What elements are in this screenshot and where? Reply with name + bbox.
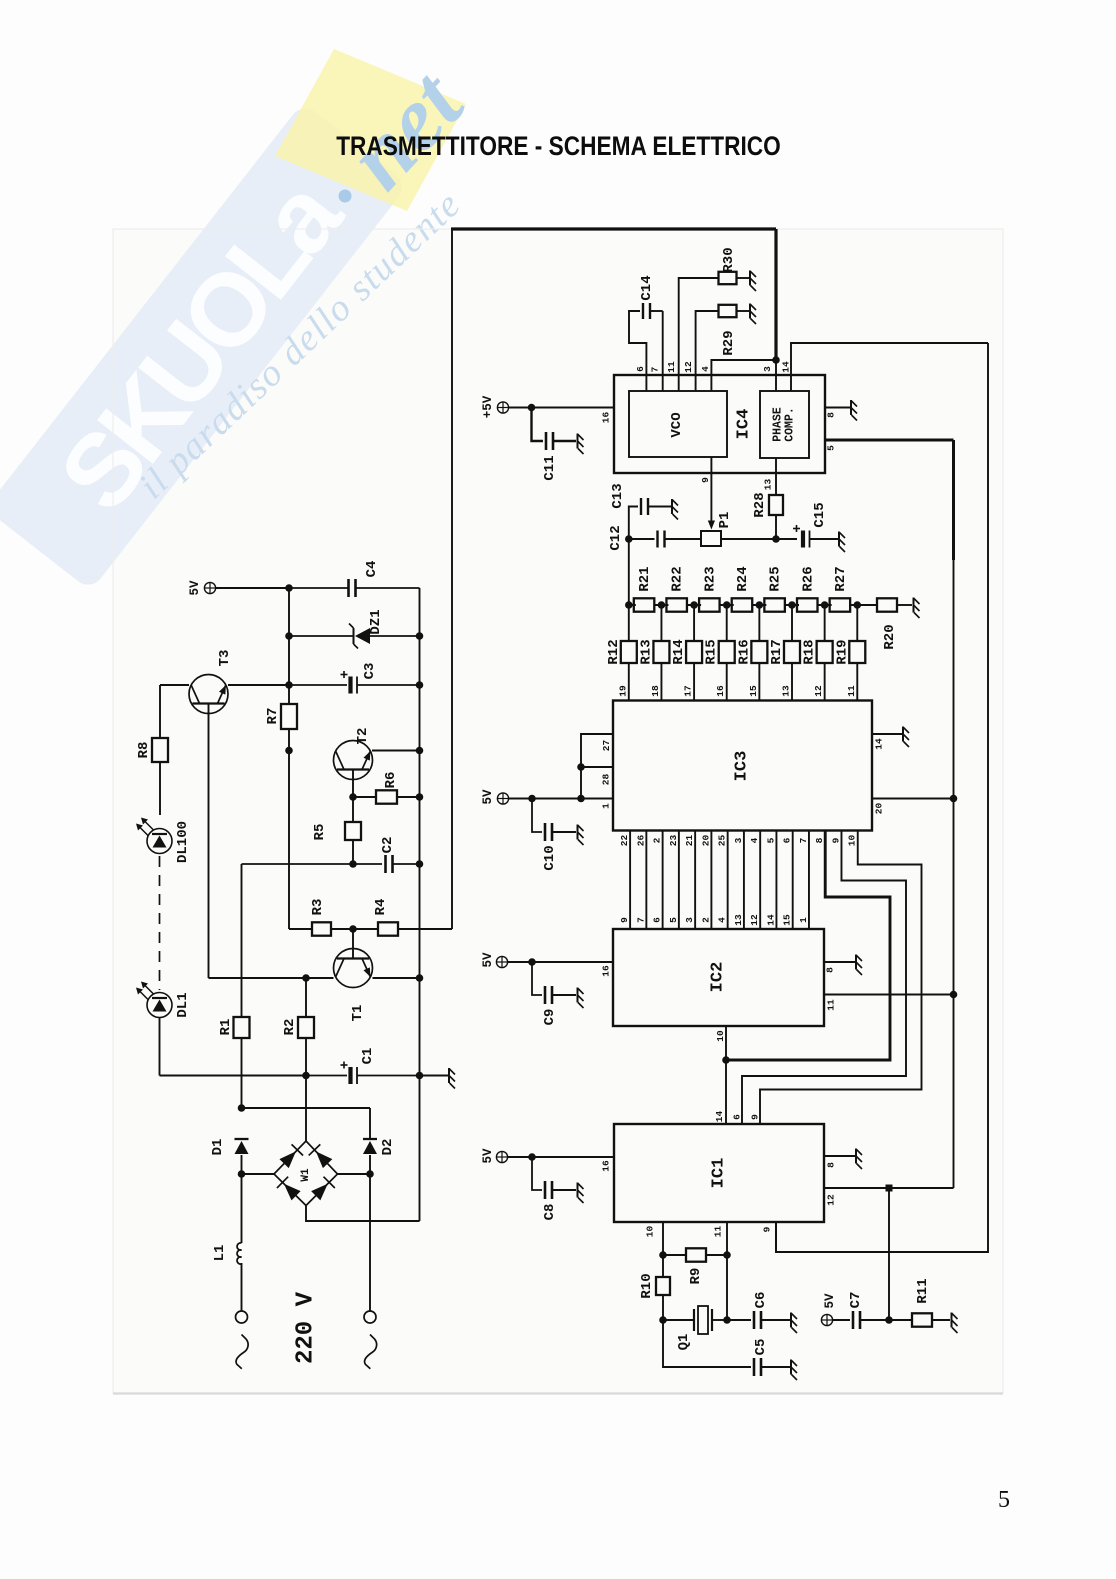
capacitor C3 electrolytic: [289, 684, 347, 686]
wire VCO pin 4 to phase comp pin 3: [711, 360, 776, 391]
svg-text:R6: R6: [383, 772, 399, 789]
svg-text:11: 11: [713, 1226, 724, 1238]
junction dot pin20 bus: [950, 795, 958, 803]
svg-text:R17: R17: [769, 639, 785, 664]
svg-text:15: 15: [782, 914, 793, 926]
junction dot ladder node 4: [723, 601, 731, 609]
junction dot T1 base node: [349, 925, 357, 933]
wire IC3 pin 21 to IC2: [694, 831, 696, 930]
junction dot R2-C1 node: [302, 1072, 310, 1080]
svg-text:R4: R4: [373, 899, 389, 916]
IC3 box: [613, 701, 872, 831]
svg-text:3: 3: [733, 837, 744, 843]
svg-text:6: 6: [635, 366, 646, 372]
wire IC2 pin 8 to ground: [824, 961, 855, 963]
svg-text:10: 10: [715, 1030, 726, 1042]
svg-text:Q1: Q1: [676, 1334, 692, 1351]
capacitor C1 electrolytic: [306, 1075, 347, 1077]
svg-text:T2: T2: [355, 728, 371, 745]
svg-text:12: 12: [826, 1194, 837, 1206]
svg-text:TRASMETTITORE - SCHEMA ELETTRI: TRASMETTITORE - SCHEMA ELETTRICO: [336, 131, 781, 161]
svg-text:1: 1: [798, 917, 809, 923]
junction dot T1-R2 node: [302, 974, 310, 982]
svg-text:18: 18: [650, 685, 661, 697]
svg-text:11: 11: [826, 999, 837, 1011]
power 5V terminal (T3 section): [204, 582, 215, 593]
junction dot C1 right node: [416, 1072, 424, 1080]
svg-text:5: 5: [998, 1487, 1010, 1513]
junction dot D2-W1: [366, 1170, 374, 1178]
svg-text:4: 4: [749, 837, 760, 843]
svg-text:4: 4: [717, 917, 728, 923]
svg-text:13: 13: [733, 914, 744, 926]
svg-text:9: 9: [750, 1114, 761, 1120]
capacitor C9: [532, 962, 542, 995]
svg-text:R27: R27: [833, 566, 849, 591]
svg-text:R3: R3: [310, 899, 326, 916]
wire thick top bus to IC4 pin 3: [451, 227, 776, 230]
svg-text:R16: R16: [736, 639, 752, 664]
dashed optical link DL100-DL1: [159, 856, 161, 990]
capacitor C6: [753, 1311, 756, 1329]
svg-text:R18: R18: [802, 639, 818, 664]
capacitor C7: [852, 1311, 855, 1329]
svg-text:21: 21: [684, 835, 695, 847]
wire IC2 pin 11 to x955 bus: [824, 994, 954, 996]
resistor R21: [634, 598, 655, 611]
ground IC2 pin 8: [856, 955, 862, 976]
watermark .net text: [339, 190, 352, 203]
wire W1 top corner to C1 row: [305, 1076, 307, 1142]
svg-text:8: 8: [814, 837, 825, 843]
wire 5V to IC1 pin 16: [508, 1156, 614, 1158]
wire VCO pin 7: [662, 311, 664, 391]
wire IC3 pin 25 to IC2: [727, 831, 729, 930]
svg-text:12: 12: [749, 914, 760, 926]
svg-text:6: 6: [732, 1114, 743, 1120]
capacitor C10: [532, 799, 542, 833]
svg-text:16: 16: [601, 1160, 612, 1172]
resistor R23: [699, 598, 720, 611]
watermark yellow parallelogram: [275, 49, 466, 211]
wire Q1 node to C6: [726, 1255, 728, 1320]
resistor R18: [824, 605, 826, 641]
junction dot Q1 left: [659, 1316, 667, 1324]
svg-text:11: 11: [846, 685, 857, 697]
junction dot 5V-C4 node: [285, 584, 293, 592]
inductor L1: [241, 1174, 243, 1243]
svg-text:2: 2: [700, 917, 711, 923]
IC1 box: [614, 1124, 824, 1222]
resistor R4: [353, 928, 378, 930]
svg-text:6: 6: [652, 917, 663, 923]
wire phase comp pin 14 to right bus: [791, 343, 988, 391]
wire IC3 pin 10 bus to IC1 pin 9: [760, 831, 922, 1125]
resistor R5: [352, 797, 354, 822]
wire IC1 pin 10 down: [662, 1222, 664, 1255]
svg-text:R29: R29: [721, 330, 737, 355]
resistor R12: [628, 605, 630, 641]
junction dot T1 right node: [416, 974, 424, 982]
resistor R7: [281, 704, 297, 729]
resistor R13: [660, 605, 662, 641]
wire 5V to IC3 pin 1: [509, 798, 613, 800]
junction dot ladder node 7: [821, 601, 829, 609]
svg-text:7: 7: [650, 366, 661, 372]
sine squiggle right terminal: [365, 1335, 377, 1369]
diode D2: [363, 1138, 377, 1140]
power +5V terminal IC4: [497, 402, 508, 413]
svg-text:7: 7: [635, 917, 646, 923]
svg-text:3: 3: [762, 366, 773, 372]
wire IC3 pin 8 thick bus to IC1 pin14 node: [726, 831, 890, 1061]
wire 5V to IC4 pin 16: [509, 407, 614, 409]
svg-text:R20: R20: [882, 624, 898, 649]
wire IC1 pin 12 right: [824, 1187, 954, 1189]
crystal Q1: [663, 1319, 694, 1321]
wire IC3 pin 23 to IC2: [678, 831, 680, 930]
svg-text:R11: R11: [915, 1278, 931, 1303]
zener diode DZ1: [289, 635, 353, 637]
svg-text:R14: R14: [671, 639, 687, 664]
svg-text:5: 5: [765, 837, 776, 843]
svg-text:9: 9: [700, 477, 711, 483]
junction dot ladder node 5: [756, 601, 764, 609]
resistor R10: [656, 1277, 670, 1295]
svg-text:8: 8: [826, 1162, 837, 1168]
svg-text:13: 13: [763, 479, 774, 491]
resistor R16: [758, 605, 760, 641]
svg-text:D2: D2: [380, 1139, 396, 1156]
wire C13 branch: [629, 507, 638, 540]
ground C9: [578, 988, 584, 1009]
svg-text:IC1: IC1: [710, 1158, 729, 1189]
svg-text:16: 16: [715, 685, 726, 697]
wire IC3 pin 27-28 link: [581, 734, 613, 799]
svg-text:+5V: +5V: [481, 395, 495, 418]
wire IC3 pin 5 to IC2: [775, 831, 777, 930]
junction dot IC2-IC1 link: [722, 1056, 730, 1064]
capacitor C11: [532, 408, 544, 442]
pin 8 line (IC4) to ground: [825, 407, 850, 409]
svg-text:D1: D1: [210, 1139, 226, 1156]
wire right vertical bus x988: [776, 343, 988, 1252]
ground R11: [952, 1313, 958, 1334]
ladder bus wire R21-R27: [629, 604, 636, 606]
ground R29: [750, 304, 756, 325]
svg-text:IC2: IC2: [709, 962, 728, 993]
resistor R17: [791, 605, 793, 641]
svg-text:T3: T3: [217, 650, 233, 667]
wire long loop R4 up over to IC4 pin3 - thin left segment: [451, 229, 453, 929]
wire IC3 pin 22 to IC2: [629, 831, 631, 930]
resistor R28: [769, 495, 783, 515]
wire IC1 pin 9 bottom to x988 bus: [775, 1222, 777, 1252]
square junction pin12: [886, 1185, 893, 1192]
svg-text:220 V: 220 V: [293, 1291, 320, 1364]
terminal circle left 220V input: [236, 1311, 248, 1323]
resistor R6: [353, 796, 376, 798]
svg-text:28: 28: [601, 774, 612, 786]
svg-text:5: 5: [668, 917, 679, 923]
svg-text:14: 14: [781, 361, 792, 373]
junction dot C3 right node: [416, 681, 424, 689]
ground C8: [578, 1183, 584, 1204]
wire IC3 pin 7 to IC2: [808, 831, 810, 930]
resistor R8: [159, 685, 161, 738]
svg-text:R9: R9: [688, 1268, 704, 1285]
svg-text:DZ1: DZ1: [368, 609, 384, 634]
wire IC3 pin 2 to IC2: [662, 831, 664, 930]
svg-text:15: 15: [748, 685, 759, 697]
resistor R11: [889, 1319, 912, 1321]
resistor R29: [719, 305, 737, 317]
svg-text:5V: 5V: [823, 1293, 837, 1309]
svg-text:5V: 5V: [188, 580, 202, 596]
svg-text:C3: C3: [362, 663, 378, 680]
svg-text:C12: C12: [608, 525, 624, 550]
junction dot ladder node 8: [853, 601, 861, 609]
svg-text:27: 27: [601, 740, 612, 752]
svg-text:14: 14: [714, 1111, 725, 1123]
wire W1 right corner: [338, 1173, 371, 1175]
wire C1 row to ground: [420, 1075, 449, 1077]
terminal circle right 220V input: [364, 1311, 376, 1323]
resistor R2: [305, 978, 307, 1017]
junction dot pin11 bus: [950, 991, 958, 999]
svg-text:R25: R25: [768, 566, 784, 591]
PHASE COMP box: [760, 391, 809, 458]
svg-text:R22: R22: [670, 566, 686, 591]
wire IC3 pin 26 to IC2: [645, 831, 647, 930]
wire IC1 pin 8 to ground: [824, 1155, 855, 1157]
resistor R1: [234, 1017, 250, 1038]
IC2 box: [613, 929, 824, 1026]
svg-text:16: 16: [601, 412, 612, 424]
svg-text:C14: C14: [639, 275, 655, 300]
wire R1 to D1 and D2 branch: [238, 1104, 246, 1112]
capacitor C14: [642, 303, 644, 319]
svg-text:R5: R5: [312, 824, 328, 841]
resistor R27: [830, 598, 851, 611]
svg-text:L1: L1: [212, 1245, 228, 1262]
wire C2 node down to R1: [241, 864, 243, 1017]
wire IC2 pin 10 to IC1 pin 14: [725, 1026, 727, 1124]
resistor R24: [732, 598, 753, 611]
junction dot C2 right node: [416, 860, 424, 868]
wire IC3 pin 20 to x955 bus: [872, 798, 954, 800]
wire IC3 pin 9 bus to IC1 pin 6: [742, 831, 906, 1125]
junction dot ladder node 1: [625, 601, 633, 609]
resistor R19: [856, 605, 858, 641]
junction dot T2 right node: [416, 747, 424, 755]
svg-text:VCO: VCO: [669, 412, 685, 437]
svg-text:10: 10: [847, 835, 858, 847]
svg-text:R28: R28: [752, 492, 768, 517]
power 5V terminal IC2: [496, 956, 507, 967]
svg-text:17: 17: [683, 685, 694, 697]
ground C6: [791, 1313, 797, 1334]
wire W1 left corner: [242, 1173, 275, 1175]
diode D1: [235, 1138, 249, 1140]
ground C1 row: [449, 1068, 455, 1089]
svg-text:12: 12: [813, 685, 824, 697]
resistor R3: [289, 928, 312, 930]
wire VCO pin 9 to P1 wiper: [710, 457, 712, 521]
ground R30: [750, 271, 756, 292]
svg-text:R19: R19: [834, 639, 850, 664]
wire T3 base down to T1 row: [208, 704, 210, 979]
resistor R22: [666, 598, 687, 611]
transistor T1: [209, 977, 334, 979]
svg-text:R8: R8: [136, 742, 152, 759]
svg-text:9: 9: [619, 917, 630, 923]
svg-text:C4: C4: [364, 561, 380, 578]
trimmer P1: [701, 531, 721, 546]
svg-text:C6: C6: [753, 1292, 769, 1309]
LED DL1: [147, 993, 172, 1018]
svg-text:R24: R24: [735, 566, 751, 591]
wire P1 to R28 node: [721, 538, 797, 540]
junction dot pin3 node: [772, 356, 780, 364]
svg-text:16: 16: [601, 965, 612, 977]
svg-text:R12: R12: [606, 639, 622, 664]
svg-text:26: 26: [635, 835, 646, 847]
wire D2 branch to right terminal: [369, 1174, 371, 1311]
svg-text:7: 7: [798, 837, 809, 843]
svg-text:IC4: IC4: [735, 409, 754, 440]
svg-text:R23: R23: [702, 566, 718, 591]
svg-text:14: 14: [874, 738, 885, 750]
capacitor C8: [532, 1157, 542, 1190]
svg-text:8: 8: [825, 967, 836, 973]
wire C12 node to P1: [629, 538, 655, 540]
svg-text:4: 4: [700, 366, 711, 372]
sine squiggle left terminal: [236, 1335, 248, 1369]
svg-text:R15: R15: [704, 639, 720, 664]
ground C11: [578, 434, 584, 455]
svg-text:R7: R7: [265, 708, 281, 725]
svg-text:5V: 5V: [481, 789, 495, 805]
svg-text:1: 1: [601, 803, 612, 809]
ground IC1 pin 8: [856, 1149, 862, 1170]
svg-text:C9: C9: [542, 1009, 558, 1026]
svg-text:DL100: DL100: [175, 821, 191, 863]
wire 5V to C7: [833, 1319, 850, 1321]
svg-text:11: 11: [666, 361, 677, 373]
junction dot C12 node: [625, 535, 633, 543]
junction dot C7-R11 node: [885, 1316, 893, 1324]
capacitor C12: [656, 531, 658, 548]
resistor R9: [663, 1254, 686, 1256]
junction dot Q1 right: [723, 1316, 731, 1324]
svg-text:R21: R21: [637, 566, 653, 591]
junction dot ladder node 6: [788, 601, 796, 609]
wire pin 3 into PHASE COMP: [775, 360, 777, 391]
svg-text:C7: C7: [848, 1292, 864, 1309]
wire T2 base node: [352, 770, 354, 798]
svg-text:20: 20: [874, 803, 885, 815]
svg-text:14: 14: [765, 914, 776, 926]
svg-text:R30: R30: [721, 247, 737, 272]
wire C12 node down to ladder: [628, 539, 630, 605]
svg-text:P1: P1: [717, 512, 733, 529]
svg-text:R13: R13: [638, 639, 654, 664]
transistor T3: [160, 684, 189, 686]
capacitor C4: [289, 587, 348, 589]
svg-text:R10: R10: [639, 1273, 655, 1298]
junction dot DZ1 left node: [285, 632, 293, 640]
svg-text:C5: C5: [753, 1339, 769, 1356]
capacitor C15 electrolytic: [801, 531, 805, 548]
svg-text:19: 19: [617, 685, 628, 697]
wire node A vertical x289 5V to R7 and R3: [288, 588, 290, 704]
svg-text:C11: C11: [542, 455, 558, 480]
capacitor C2: [242, 863, 383, 865]
svg-text:C1: C1: [360, 1048, 376, 1065]
wire 5V rail to C4: [216, 587, 290, 589]
svg-text:R26: R26: [800, 566, 816, 591]
junction dot R9 right: [723, 1251, 731, 1259]
power 5V terminal C7 node: [821, 1314, 832, 1325]
svg-text:R1: R1: [218, 1019, 234, 1036]
wire 5V to IC2 pin 16: [508, 961, 613, 963]
wire node8 to R20: [857, 604, 877, 606]
svg-text:2: 2: [652, 837, 663, 843]
bottom separator line: [113, 1392, 1003, 1394]
svg-text:5: 5: [826, 445, 837, 451]
svg-text:W1: W1: [300, 1168, 312, 1182]
ground R20: [914, 598, 920, 619]
wire VCO pin 11 to R30: [679, 278, 719, 391]
junction dot R28-C15 node: [772, 535, 780, 543]
svg-text:9: 9: [830, 837, 841, 843]
resistor R15: [726, 605, 728, 641]
scan area border: [113, 229, 1003, 1393]
power 5V terminal IC1: [496, 1151, 507, 1162]
capacitor C13: [640, 498, 642, 515]
svg-text:9: 9: [762, 1226, 773, 1232]
junction dot D1-W1: [238, 1170, 246, 1178]
ground C10: [578, 825, 584, 846]
resistor R25: [764, 598, 785, 611]
junction dot R5-C2 node: [349, 860, 357, 868]
svg-text:C10: C10: [542, 845, 558, 870]
svg-text:12: 12: [683, 361, 694, 373]
svg-text:C8: C8: [542, 1204, 558, 1221]
wire VCO pin 12 to R29: [696, 311, 719, 391]
LED DL100: [147, 829, 172, 854]
wire IC3 pin 4 to IC2: [759, 831, 761, 930]
wire IC3 pin 14 to ground: [872, 733, 902, 735]
svg-text:10: 10: [645, 1226, 656, 1238]
power 5V terminal IC3: [497, 793, 508, 804]
resistor R30: [719, 272, 737, 284]
junction dot R6 right node: [416, 793, 424, 801]
wire pin12 node down to R11 node: [888, 1188, 890, 1320]
svg-text:5V: 5V: [481, 1148, 495, 1164]
svg-text:5V: 5V: [481, 952, 495, 968]
wire DL1 to C1 ground row: [159, 1018, 161, 1076]
ground IC3 pin 14: [903, 727, 909, 748]
svg-text:25: 25: [717, 835, 728, 847]
junction dot R7-T2 node: [285, 747, 293, 755]
svg-text:T1: T1: [350, 1005, 366, 1022]
wire x419 vertical right rail: [419, 588, 421, 1221]
watermark blue band with SKUOLa: [0, 102, 408, 591]
svg-text:22: 22: [619, 835, 630, 847]
junction dot C3-T3 node: [285, 681, 293, 689]
